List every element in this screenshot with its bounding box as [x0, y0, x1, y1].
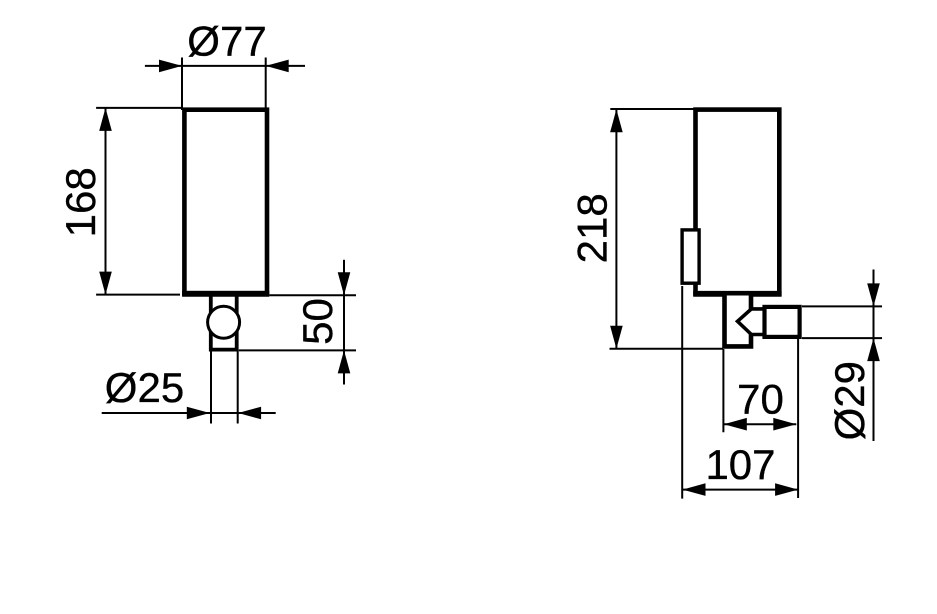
svg-text:Ø77: Ø77: [187, 17, 266, 64]
front view: outlet tube lines: [211, 352, 238, 424]
svg-text:70: 70: [737, 376, 784, 423]
side view: pump housing: [725, 296, 752, 347]
front view: pump neck: [211, 296, 237, 350]
dimension 107: text label: [705, 441, 775, 488]
dimension 107: dimension line with inside arrows: [683, 483, 799, 496]
svg-text:107: 107: [705, 441, 775, 488]
dimension Ø29: extension lines: [802, 306, 882, 338]
dimension 168: dimension line with inside arrows: [99, 108, 112, 295]
dimension Ø77: extension lines: [182, 58, 266, 111]
dimension 50: dimension line with outside arrows: [338, 260, 351, 385]
dimension 107: extension lines: [682, 286, 798, 499]
dimension 168: text label (rotated): [57, 167, 104, 237]
dimension Ø29: dimension line with outside arrows: [867, 270, 880, 442]
side view: spout cone (arrowhead shape): [738, 309, 766, 335]
svg-text:168: 168: [57, 167, 104, 237]
dimension 218: text label (rotated): [569, 193, 616, 263]
dimension Ø77: text label: [187, 17, 266, 64]
dimension Ø29: text label (rotated): [826, 361, 873, 440]
dimension 70: dimension line with inside arrows: [724, 418, 797, 431]
side view: dispenser body outline: [693, 110, 781, 294]
dimension 50: extension lines: [239, 295, 356, 350]
dimension Ø25: text label: [105, 364, 184, 411]
dimension 70: text label: [737, 376, 784, 423]
dimension 70: extension line: [722, 349, 724, 432]
svg-text:50: 50: [294, 298, 341, 345]
side view: spout nozzle rectangle: [765, 307, 800, 337]
dimension 218: extension lines: [610, 109, 724, 349]
front view: pump ball circle: [208, 306, 240, 338]
dimension 168: extension lines: [96, 108, 182, 295]
dimension Ø77: dimension line with outside arrows: [145, 60, 305, 73]
front view: dispenser body outline: [182, 110, 269, 294]
side view: wall bracket tab: [682, 230, 699, 283]
svg-text:218: 218: [569, 193, 616, 263]
dimension 50: text label (rotated): [294, 298, 341, 345]
dimension 218: dimension line with inside arrows: [610, 109, 623, 349]
svg-text:Ø29: Ø29: [826, 361, 873, 440]
dimension Ø25: dimension line with outside arrows: [102, 407, 276, 420]
svg-text:Ø25: Ø25: [105, 364, 184, 411]
